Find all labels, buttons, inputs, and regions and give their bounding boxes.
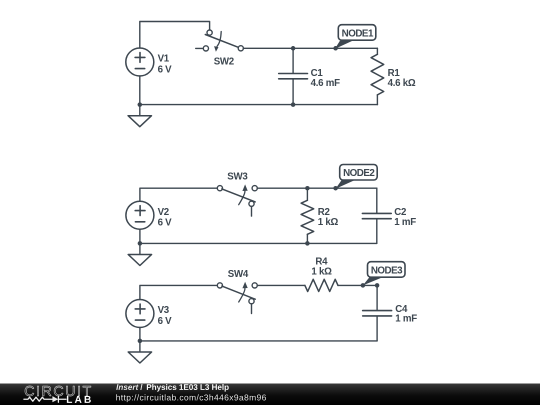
footer bar xyxy=(0,384,540,405)
resistor R1 xyxy=(371,48,384,104)
wire V3 top to SW4 xyxy=(140,285,217,299)
node flag NODE2 xyxy=(336,165,378,189)
switch SW4 xyxy=(217,283,257,314)
wire V1 top to SW2 xyxy=(140,22,210,49)
junction R2 bottom xyxy=(305,241,310,246)
footer title line xyxy=(116,384,138,390)
svg-text:6 V: 6 V xyxy=(158,316,173,327)
capacitor C2 xyxy=(362,188,391,243)
switch SW3 xyxy=(217,186,257,217)
svg-text:V3: V3 xyxy=(158,305,170,316)
svg-text:6 V: 6 V xyxy=(158,64,173,75)
svg-text:SW3: SW3 xyxy=(227,172,248,183)
wire V2 bottom xyxy=(139,229,141,243)
wire SW4 to R4 xyxy=(257,284,305,286)
svg-text:NODE3: NODE3 xyxy=(371,265,403,276)
footer url line xyxy=(116,394,266,402)
CircuitLab logo text LAB xyxy=(67,396,91,403)
svg-text:1 mF: 1 mF xyxy=(394,217,416,228)
svg-text:NODE1: NODE1 xyxy=(342,28,374,39)
ground circuit 2 xyxy=(128,243,151,265)
CircuitLab logo diode triangle xyxy=(52,396,58,402)
svg-text:SW2: SW2 xyxy=(214,57,234,68)
svg-text:SW4: SW4 xyxy=(228,269,249,280)
junction R2 top xyxy=(305,186,310,191)
node dot NODE2 attach xyxy=(333,186,338,191)
svg-text:6 V: 6 V xyxy=(158,218,173,229)
node flag NODE1 xyxy=(335,25,376,49)
svg-text:4.6 mF: 4.6 mF xyxy=(311,78,341,89)
svg-text:1 kΩ: 1 kΩ xyxy=(311,266,332,277)
svg-text:4.6 kΩ: 4.6 kΩ xyxy=(388,78,416,89)
node dot NODE1 attach xyxy=(333,46,338,51)
junction C1 bottom xyxy=(291,102,296,107)
svg-text:1 kΩ: 1 kΩ xyxy=(318,217,339,228)
bottom wire circuit 3 xyxy=(140,340,377,342)
svg-text:V2: V2 xyxy=(158,207,169,218)
wire SW3 to right xyxy=(257,187,377,189)
resistor R4 xyxy=(305,279,338,291)
junction V1 bottom xyxy=(138,102,143,107)
junction at C1 top xyxy=(291,46,296,51)
capacitor C4 xyxy=(363,285,392,341)
svg-text:1 mF: 1 mF xyxy=(395,314,417,325)
wire V3 bottom xyxy=(139,328,141,341)
switch SW2 xyxy=(196,30,244,51)
voltage source V2 xyxy=(126,201,154,229)
wire R4 to C4 corner xyxy=(338,284,377,286)
CircuitLab logo text CIRCUIT xyxy=(25,386,91,396)
node dot NODE3 attach xyxy=(361,283,366,288)
voltage source V1 xyxy=(126,48,154,76)
capacitor C1 xyxy=(279,48,308,104)
wire V1 bottom xyxy=(139,76,141,105)
switch SW3 arrowhead xyxy=(242,184,247,191)
wire V2 top to SW3 xyxy=(140,188,217,201)
ground circuit 3 xyxy=(128,341,151,363)
svg-text:V1: V1 xyxy=(158,54,170,65)
junction V2 bottom xyxy=(138,241,143,246)
node flag NODE3 xyxy=(363,262,405,286)
switch SW4 arrowhead xyxy=(242,282,247,289)
ground circuit 1 xyxy=(128,105,151,127)
wire SW2 to right branch xyxy=(243,47,377,49)
switch SW2 arrowhead xyxy=(214,46,218,52)
bottom wire circuit 1 xyxy=(140,104,378,106)
CircuitLab logo squiggle resistor-diode xyxy=(24,396,66,402)
svg-text:NODE2: NODE2 xyxy=(343,168,375,179)
junction C4 top corner xyxy=(375,283,380,288)
bottom wire circuit 2 xyxy=(140,242,377,244)
voltage source V3 xyxy=(126,300,154,328)
resistor R2 xyxy=(301,188,314,243)
junction V3 bottom xyxy=(138,339,143,344)
